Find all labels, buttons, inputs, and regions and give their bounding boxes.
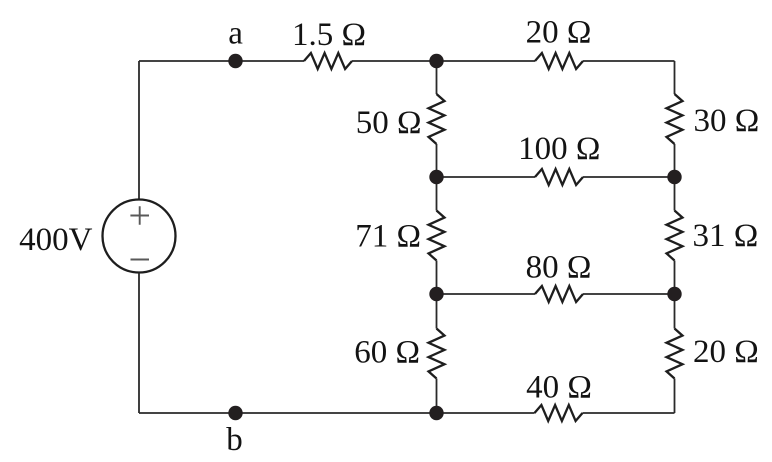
resistor 20 ohm right bbox=[667, 329, 683, 379]
label node b bbox=[226, 422, 243, 458]
junction: bottom rail / middle column bbox=[429, 406, 443, 420]
junction: rail2 / middle column bbox=[429, 170, 443, 184]
resistor 60 ohm bbox=[429, 329, 445, 379]
resistor 71 ohm bbox=[429, 211, 445, 261]
svg-text:80 Ω: 80 Ω bbox=[526, 250, 592, 286]
node b bbox=[228, 406, 242, 420]
wire: middle column segment rail1 to 50ohm bbox=[436, 61, 438, 94]
resistor 50 ohm bbox=[429, 94, 445, 144]
resistor 30 ohm bbox=[667, 94, 683, 144]
label 20 ohm right bbox=[693, 334, 759, 370]
junction: rail3 / middle column bbox=[429, 287, 443, 301]
label 20 ohm top bbox=[526, 15, 592, 51]
label 100 ohm bbox=[518, 131, 600, 167]
label 30 ohm bbox=[694, 103, 760, 139]
svg-text:20 Ω: 20 Ω bbox=[693, 334, 759, 370]
wire: rail3 left segment bbox=[437, 293, 536, 295]
label 80 ohm bbox=[526, 250, 592, 286]
wire: left column lower bbox=[138, 273, 140, 414]
label 400V bbox=[19, 222, 93, 258]
wire: right column segment rail2 to 31ohm bbox=[674, 177, 676, 211]
resistor 20 ohm top bbox=[535, 53, 583, 69]
resistor 80 ohm bbox=[535, 286, 583, 302]
wire: middle column segment 60ohm to rail4 bbox=[436, 379, 438, 414]
junction: top rail / middle column bbox=[429, 54, 443, 68]
wire: bottom rail right segment bbox=[583, 412, 675, 414]
resistor 100 ohm bbox=[535, 169, 583, 185]
svg-text:b: b bbox=[226, 422, 243, 458]
label node a bbox=[228, 16, 243, 52]
wire: rail2 right segment bbox=[583, 176, 675, 178]
voltage source V1 400V bbox=[103, 200, 176, 273]
wire: middle column segment rail2 to 71ohm bbox=[436, 177, 438, 211]
svg-text:400V: 400V bbox=[19, 222, 93, 258]
label 60 ohm bbox=[354, 335, 420, 371]
wire: middle column segment rail3 to 60ohm bbox=[436, 294, 438, 329]
wire: middle column segment 71ohm to rail3 bbox=[436, 261, 438, 295]
wire: right column segment 20ohm to rail4 bbox=[674, 379, 676, 414]
svg-text:50 Ω: 50 Ω bbox=[356, 105, 422, 141]
junction: rail3 / right column bbox=[667, 287, 681, 301]
svg-text:100 Ω: 100 Ω bbox=[518, 131, 600, 167]
svg-text:31 Ω: 31 Ω bbox=[693, 218, 759, 254]
wire: right column segment rail1 to 30ohm bbox=[674, 61, 676, 94]
wire: rail2 left segment bbox=[437, 176, 536, 178]
wire: right column segment rail3 to 20ohm bbox=[674, 294, 676, 329]
label 40 ohm bbox=[526, 370, 592, 406]
wire: middle column segment 50ohm to rail2 bbox=[436, 144, 438, 177]
junction: rail2 / right column bbox=[667, 170, 681, 184]
wire: top rail middle segment bbox=[352, 60, 535, 62]
wire: rail3 right segment bbox=[583, 293, 675, 295]
label 1.5 ohm bbox=[292, 17, 366, 53]
label 71 ohm bbox=[355, 219, 421, 255]
wire: top rail left segment bbox=[139, 60, 304, 62]
svg-text:20 Ω: 20 Ω bbox=[526, 15, 592, 51]
wire: bottom rail left segment bbox=[139, 412, 535, 414]
node a bbox=[228, 54, 242, 68]
svg-text:40 Ω: 40 Ω bbox=[526, 370, 592, 406]
svg-text:30 Ω: 30 Ω bbox=[694, 103, 760, 139]
wire: left column upper bbox=[138, 61, 140, 200]
svg-text:a: a bbox=[228, 16, 243, 52]
wire: right column segment 31ohm to rail3 bbox=[674, 261, 676, 295]
svg-text:60 Ω: 60 Ω bbox=[354, 335, 420, 371]
svg-text:71 Ω: 71 Ω bbox=[355, 219, 421, 255]
svg-text:1.5 Ω: 1.5 Ω bbox=[292, 17, 366, 53]
label 31 ohm bbox=[693, 218, 759, 254]
resistor 40 ohm bbox=[535, 405, 583, 421]
wire: top rail right segment bbox=[583, 60, 675, 62]
label 50 ohm bbox=[356, 105, 422, 141]
resistor 1.5 ohm bbox=[304, 53, 352, 69]
wire: right column segment 30ohm to rail2 bbox=[674, 144, 676, 177]
resistor 31 ohm bbox=[667, 211, 683, 261]
